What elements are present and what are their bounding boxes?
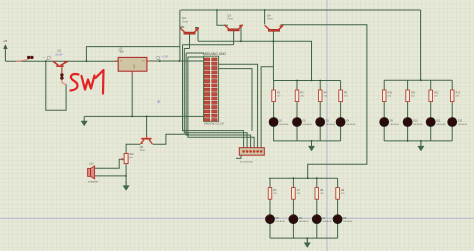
svg-text:D11: D11 [436,120,441,123]
svg-text:TIP41: TIP41 [227,19,234,21]
svg-text:ARDUINO UNO: ARDUINO UNO [203,52,227,56]
svg-text:Q1: Q1 [57,49,61,53]
svg-text:LED-BLUE: LED-BLUE [390,124,400,126]
svg-text:7805: 7805 [119,51,125,53]
svg-text:R12: R12 [434,91,439,94]
svg-text:LED-BLUE: LED-BLUE [346,124,356,126]
svg-text:LED-BLUE: LED-BLUE [413,124,423,126]
svg-text:Q4: Q4 [267,13,271,17]
svg-text:GND: GND [133,64,135,69]
svg-text:Q5: Q5 [140,145,144,149]
svg-text:VO: VO [142,61,145,63]
svg-text:ARDUINO.CC.UK: ARDUINO.CC.UK [204,123,224,126]
svg-text:D12: D12 [458,120,463,123]
svg-text:1N60P: 1N60P [55,54,63,57]
svg-text:TIP41: TIP41 [267,19,274,21]
svg-text:LED-BLUE: LED-BLUE [326,124,336,126]
svg-text:R13: R13 [456,91,461,94]
svg-text:Q3: Q3 [227,13,231,17]
svg-text:LED-BLUE: LED-BLUE [299,221,309,223]
svg-text:LED-BLUE: LED-BLUE [436,124,446,126]
svg-text:+5.00: +5.00 [162,55,169,59]
svg-text:R11: R11 [411,91,416,94]
svg-text:SPEAKER: SPEAKER [88,181,99,184]
svg-text:TIP41: TIP41 [182,21,189,23]
svg-text:LED-BLUE: LED-BLUE [276,221,286,223]
svg-text:LED-BLUE: LED-BLUE [343,221,353,223]
svg-text:LED-BLUE: LED-BLUE [279,124,289,126]
svg-text:LED-BLUE: LED-BLUE [303,124,313,126]
svg-text:Q2: Q2 [182,16,186,20]
svg-text:LED-BLUE: LED-BLUE [458,124,468,126]
svg-text:SD MODULE: SD MODULE [240,162,254,164]
svg-text:TIP41: TIP41 [140,150,147,152]
svg-text:500: 500 [129,153,134,156]
svg-text:R10: R10 [388,91,393,94]
svg-text:pot: pot [129,156,132,159]
svg-text:+88: +88 [3,39,8,43]
svg-text:LED-BLUE: LED-BLUE [322,221,332,223]
svg-text:D10: D10 [413,120,418,123]
svg-text:U1: U1 [119,46,123,50]
svg-text:LS1: LS1 [89,161,94,165]
